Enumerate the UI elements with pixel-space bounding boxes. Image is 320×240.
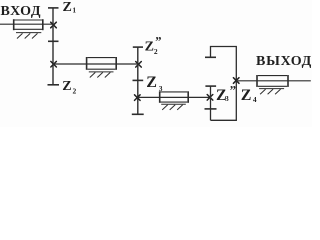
node junction 2 (shunt line 1 / wire 2) [51, 61, 57, 67]
svg-text:”: ” [155, 34, 161, 48]
node junction 6 (right leg / output wire) [233, 78, 239, 84]
wire output (ВЫХОД lead-out) [236, 80, 310, 82]
terminal tick bottom of line 2 [132, 113, 144, 115]
wire input (ВХОД lead-in) [0, 23, 53, 25]
mid tick on left leg [205, 108, 217, 110]
node junction 3 (wire 2 / shunt line 2) [136, 62, 142, 68]
mid tick on line 2 (Z3) [133, 79, 144, 81]
svg-text:ВЫХОД: ВЫХОД [256, 54, 312, 69]
terminal tick top of left leg (Z3'') [205, 85, 216, 87]
svg-text:2: 2 [73, 86, 77, 95]
node junction 4 (shunt line 2 / wire 3) [135, 95, 141, 101]
resistor box 3 (series impedance, bottom branch) [160, 91, 189, 103]
terminal tick of bracket left stub [205, 56, 216, 58]
resistor box 4 (series impedance, output branch) [257, 75, 288, 87]
svg-text:Z: Z [145, 40, 154, 55]
terminal tick top of line 2 (Z2'') [133, 46, 143, 48]
wire 2 (middle horizontal) [53, 63, 138, 65]
svg-text:Z: Z [146, 74, 157, 91]
node junction 1 (input wire / shunt line 1) [51, 22, 57, 28]
svg-text:1: 1 [72, 5, 76, 14]
svg-text:3: 3 [159, 84, 163, 93]
left leg lower (Z3'' element line) [210, 86, 212, 120]
resistor box 2 (series impedance, middle branch) [87, 57, 117, 70]
svg-text:Z: Z [241, 87, 252, 104]
mid tick on line 1 [48, 40, 59, 42]
shunt line 2 (Z2''/Z3 column) [137, 47, 139, 114]
bottom bracket (rigid link) [211, 81, 237, 121]
terminal tick bottom of line 1 (Z2) [48, 84, 60, 86]
resistor box 1 (series impedance, input branch) [14, 19, 43, 30]
terminal tick top of line 1 (Z1) [48, 7, 59, 9]
svg-text:”: ” [230, 84, 236, 98]
svg-text:Z: Z [62, 79, 71, 94]
ground hatching under box 2 [89, 72, 114, 78]
svg-text:3: 3 [225, 94, 229, 103]
wire 3 (bottom horizontal) [138, 96, 211, 98]
svg-text:4: 4 [253, 95, 257, 104]
ground hatching under box 1 [16, 33, 41, 39]
shunt line 1 (Z1/Z2 column) [52, 8, 54, 85]
svg-text:Z: Z [63, 0, 72, 15]
node junction 5 (wire 3 / left leg) [207, 95, 213, 101]
svg-text:ВХОД: ВХОД [1, 4, 42, 19]
ground hatching under box 3 [161, 104, 186, 110]
ground hatching under box 4 [259, 89, 284, 95]
top bracket (rigid link over Z3'') [211, 47, 237, 81]
